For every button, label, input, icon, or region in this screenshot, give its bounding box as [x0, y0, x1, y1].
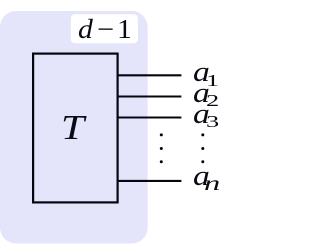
wire 2 [117, 95, 181, 97]
label a_3 [193, 100, 215, 129]
label a_1 [193, 58, 215, 87]
label a_2 [193, 79, 215, 108]
label box (white rounded) [71, 14, 138, 43]
tensor box T [33, 54, 118, 203]
vdots column 1 (between wires) [160, 133, 163, 136]
vdots column 2 (between labels) [201, 133, 204, 136]
node background (rounded lavender panel) [0, 11, 148, 244]
wire 3 [117, 116, 181, 118]
wire 4 (a_n) [117, 180, 181, 182]
T text [61, 110, 84, 145]
label text d - 1 [78, 15, 131, 44]
wire 1 [117, 74, 181, 76]
label a_n [193, 162, 215, 191]
